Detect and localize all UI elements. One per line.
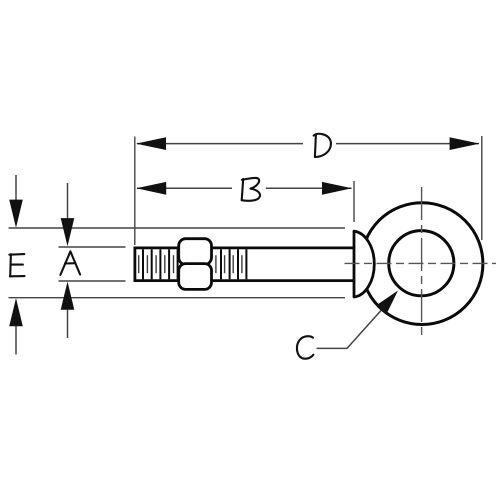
dimension E extension line bottom — [9, 297, 346, 299]
dimension D extension line left — [134, 137, 136, 246]
dimension B left arrowhead — [136, 182, 166, 195]
dimension D left arrowhead — [136, 137, 166, 150]
eye vertical centerline — [421, 187, 423, 339]
dimension A bottom arrowhead — [61, 282, 75, 310]
dimension A extension line bottom — [59, 280, 126, 282]
eye inner circle — [389, 231, 454, 296]
dimension E top arrow stem — [15, 175, 17, 201]
dimension A top arrow stem — [67, 183, 69, 220]
label C — [297, 336, 313, 358]
thread lines left of nut — [143, 249, 178, 279]
label E — [9, 254, 24, 276]
dimension E extension line top — [9, 227, 346, 229]
leader C arrowhead — [376, 291, 398, 315]
dimension E bottom arrowhead — [9, 298, 23, 326]
dimension B right arrowhead — [322, 182, 352, 195]
hex nut lower facet — [179, 264, 212, 290]
eye outer circle — [361, 203, 483, 325]
dimension D extension line right — [481, 136, 483, 240]
dimension B line — [137, 187, 352, 189]
shoulder collar — [354, 231, 374, 297]
thread crest short lines right of nut — [216, 255, 242, 273]
label D — [314, 134, 331, 157]
dimension D right arrowhead — [450, 137, 480, 150]
thread crest short lines left of nut — [139, 255, 174, 273]
dimension B extension line right — [353, 181, 355, 222]
shank outline — [134, 247, 355, 282]
eye horizontal centerline — [345, 262, 497, 264]
thread lines right of nut — [221, 249, 246, 279]
hex nut upper facet — [179, 239, 212, 265]
label B — [242, 178, 260, 201]
dimension A extension line top — [59, 246, 126, 248]
dimension E bottom arrow stem — [15, 325, 17, 355]
label A — [60, 251, 80, 275]
dimension D line — [137, 143, 479, 145]
dimension A bottom arrow stem — [67, 308, 69, 338]
dimension E top arrowhead — [9, 200, 23, 228]
leader line C — [317, 311, 382, 349]
dimension A top arrowhead — [61, 218, 75, 246]
